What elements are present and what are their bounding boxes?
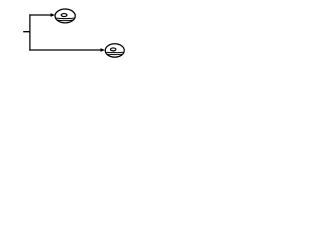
coil T2 winding arc upper <box>106 51 123 54</box>
coil T2 winding arc lower <box>107 53 122 56</box>
coil T2 hole <box>111 48 116 51</box>
arrowhead into top coil <box>51 13 55 17</box>
wire stub (left input) <box>23 31 30 33</box>
coil T1 hole <box>61 14 67 17</box>
wire top branch <box>29 14 51 16</box>
arrowhead into bottom coil <box>101 48 105 52</box>
coil T1 (top) outer silhouette <box>55 9 75 23</box>
coil T1 winding arc lower <box>57 19 73 22</box>
coil T2 (bottom) outer silhouette <box>105 44 124 57</box>
coil T1 winding arc upper <box>56 17 74 20</box>
wire vertical bus <box>29 14 31 50</box>
wire bottom branch <box>29 49 101 51</box>
